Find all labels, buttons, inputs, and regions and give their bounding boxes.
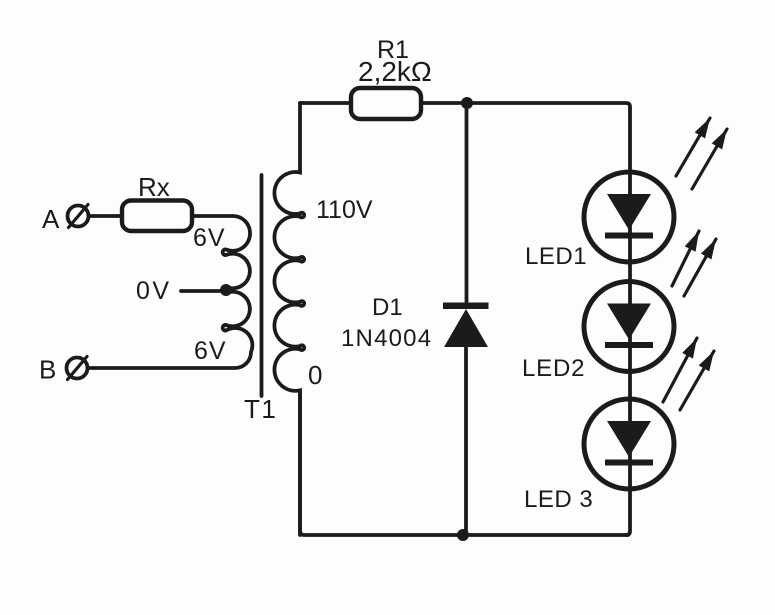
terminal B [67,357,88,380]
svg-text:B: B [39,355,56,385]
node junction bottom [457,529,469,541]
wire 0V [181,289,222,293]
wire diode branch upper [465,103,469,302]
node 0V center tap dot [220,284,232,296]
svg-text:110V: 110V [316,196,373,224]
LED1 [584,172,674,262]
svg-text:0V: 0V [136,277,172,305]
svg-text:6V: 6V [194,337,227,365]
LED2 [584,282,674,372]
svg-text:0: 0 [308,360,322,390]
svg-text:LED 3: LED 3 [524,486,593,513]
wire A to Rx [89,214,122,218]
diode D1 [443,303,489,348]
wire diode branch lower [464,347,468,535]
svg-text:T1: T1 [244,394,277,424]
wire bottom rail [300,392,628,535]
resistor R1 [351,88,421,119]
primary winding 110V [274,103,304,535]
svg-text:LED2: LED2 [522,355,585,382]
wire top rail [300,103,630,172]
terminal A [68,205,89,228]
svg-text:6V: 6V [193,224,226,252]
transformer core T1 [260,175,264,396]
LED3 [584,399,674,489]
svg-text:D1: D1 [372,294,403,321]
secondary winding lower half and wire to B [88,325,252,368]
light arrows LED3 [663,338,714,410]
svg-text:2,2kΩ: 2,2kΩ [358,56,432,87]
resistor Rx [122,201,192,232]
svg-text:A: A [42,204,60,234]
wire Rx to winding and secondary winding upper half [192,216,250,326]
light arrows LED2 [672,231,716,296]
light arrows LED1 [676,118,727,189]
wire LED column [626,172,630,535]
svg-text:1N4004: 1N4004 [341,325,432,352]
svg-text:LED1: LED1 [525,243,587,270]
svg-text:Rx: Rx [138,172,170,202]
node junction top [461,97,473,109]
